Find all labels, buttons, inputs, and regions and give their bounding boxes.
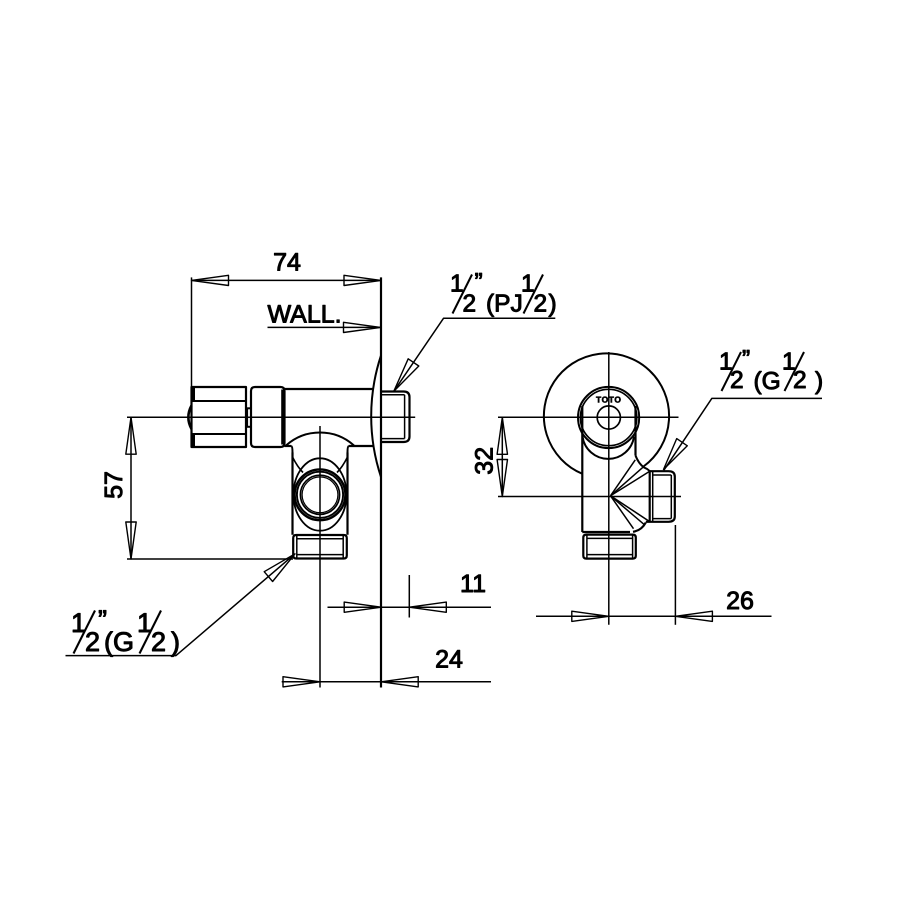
body right edge: [634, 406, 636, 456]
svg-text:32: 32: [471, 447, 499, 475]
dim 26 right arrow: [675, 611, 712, 621]
bonnet: [251, 387, 285, 447]
dim 26 line: [536, 615, 772, 617]
label 1/2"(G1/2) bottom-left leader: [66, 554, 296, 656]
label 1/2"(G1/2) right text: [719, 346, 823, 395]
WALL. arrow: [344, 322, 381, 332]
outlet left wall: [291, 453, 293, 535]
handle center circle: [597, 406, 620, 429]
handle neck: [246, 408, 251, 427]
dim 24 right arrow: [381, 677, 418, 687]
svg-text:26: 26: [726, 587, 754, 615]
dim 74 line: [192, 279, 382, 281]
valve handle knob (side view): [188, 387, 246, 447]
svg-text:): ): [171, 627, 180, 657]
upper horizontal centerline right view: [498, 416, 679, 418]
junction dome arch: [286, 433, 354, 446]
svg-text:): ): [549, 291, 557, 318]
transition cone fan lines: [611, 460, 650, 529]
label G bottom-left arrowhead: [264, 554, 295, 582]
wall flange arc: [371, 356, 381, 478]
valve body horizontal tube: [285, 389, 374, 446]
handle inner ring: [580, 389, 636, 445]
dim 57 bottom extension line: [127, 558, 293, 560]
dim 32 line: [501, 417, 503, 496]
threaded nipple PJ1/2 (into wall): [382, 392, 410, 443]
wall line: [380, 277, 382, 687]
vertical centerline right view: [608, 352, 610, 625]
dim 11 line: [328, 606, 492, 608]
svg-text:2: 2: [534, 291, 548, 318]
svg-text:(PJ: (PJ: [486, 291, 523, 318]
outlet nut (left view): [293, 535, 347, 559]
handle skirt arc: [583, 437, 635, 459]
label G right arrowhead: [664, 439, 688, 470]
dim 57 bottom arrow: [126, 522, 136, 559]
dim 57 line: [130, 417, 132, 559]
dim 32 bottom arrow: [497, 460, 507, 497]
wall flange circle: [544, 353, 669, 473]
outlet port circles: [295, 469, 346, 520]
right fillet body-to-outlet: [348, 446, 349, 453]
dim 74 right arrow: [344, 275, 381, 285]
dim 74 extension line: [191, 277, 193, 388]
svg-text:74: 74: [273, 249, 301, 277]
boss to wall blend curves: [293, 457, 304, 473]
dim 74 left arrow: [192, 275, 229, 285]
outlet right wall: [346, 453, 348, 535]
outlet boss ellipse: [294, 458, 347, 530]
right edge to nipple fillet: [636, 456, 650, 472]
body left edge: [581, 406, 583, 532]
vertical centerline of outlet: [319, 426, 321, 688]
label 1/2"(G1/2) right leader: [664, 398, 822, 470]
WALL. leader line: [268, 326, 381, 328]
bottom ledge: [582, 531, 630, 533]
dim 24 left arrow: [283, 677, 320, 687]
label 1/2"(PJ1/2) leader: [394, 318, 556, 391]
dim 11 left arrow: [344, 602, 381, 612]
dim 26 left arrow: [572, 611, 609, 621]
left fillet body-to-outlet: [291, 446, 292, 453]
handle outer ring: [578, 387, 639, 448]
svg-text:2: 2: [151, 627, 166, 657]
dim 57 top arrow: [126, 417, 136, 454]
dim 11 extension line: [408, 575, 410, 618]
svg-text:24: 24: [435, 645, 463, 673]
svg-text:”: ”: [475, 269, 483, 296]
dim 24 line: [282, 681, 491, 683]
outlet nut (right view): [583, 535, 636, 559]
svg-text:(G: (G: [754, 368, 781, 395]
label 1/2"(G1/2) bottom-left text: [71, 605, 180, 657]
label 1/2"(PJ1/2) text: [450, 269, 557, 318]
lower horizontal axis right view: [498, 496, 681, 498]
svg-text:11: 11: [460, 570, 486, 598]
svg-text:WALL.: WALL.: [268, 300, 342, 328]
dim 32 top arrow: [497, 417, 507, 454]
svg-text:): ): [815, 368, 823, 395]
svg-text:(G: (G: [104, 627, 134, 657]
svg-text:”: ”: [742, 346, 750, 373]
dim 26 extension line: [674, 525, 676, 625]
svg-text:57: 57: [100, 471, 128, 499]
dim 11 right arrow: [409, 602, 446, 612]
label PJ leader arrowhead: [394, 359, 419, 392]
horizontal centerline left view: [127, 416, 415, 418]
svg-text:2: 2: [793, 367, 807, 394]
side nipple G1/2 (right view): [646, 471, 675, 522]
ledge to nipple fillet: [633, 523, 646, 532]
